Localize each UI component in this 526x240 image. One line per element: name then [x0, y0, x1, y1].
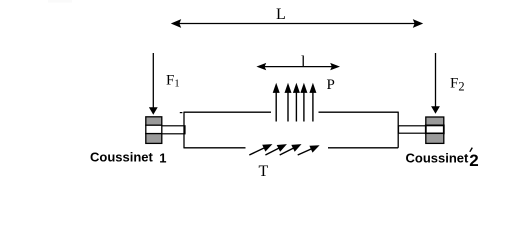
left bearing bottom gray block: [146, 134, 162, 144]
small dash left of top-left corner: [180, 112, 183, 114]
faint toolbar remnant top: [48, 0, 72, 3]
dimension L left arrowhead: [171, 19, 181, 28]
load arrow P3: [295, 90, 297, 122]
shaft body top edge right segment: [319, 111, 399, 113]
torque arrow T2: [265, 146, 283, 155]
svg-text:T: T: [259, 163, 269, 180]
dimension L right arrowhead: [413, 19, 423, 28]
force arrow F2 line: [435, 53, 437, 107]
dimension l line: [261, 66, 335, 68]
dimension L line: [176, 23, 418, 25]
left shaft stub: [162, 126, 186, 134]
right bearing bottom gray block: [426, 133, 444, 143]
right bearing middle white band: [426, 125, 444, 133]
force arrow F1 head: [149, 107, 158, 115]
apostrophe mark above 2: [470, 148, 473, 152]
load arrow P4: [303, 90, 305, 122]
left bearing top gray block: [146, 117, 162, 125]
svg-text:L: L: [276, 6, 286, 23]
svg-text:2: 2: [469, 151, 478, 170]
svg-text:l: l: [301, 54, 306, 71]
force arrow F1 line: [152, 53, 154, 108]
torque arrow T3: [280, 146, 298, 155]
left bearing middle white band: [146, 125, 162, 133]
svg-text:1: 1: [159, 150, 166, 165]
shaft body left edge: [183, 112, 185, 149]
load arrow P5: [312, 90, 314, 122]
right shaft stub: [399, 126, 427, 133]
load arrow P1: [275, 90, 277, 122]
right bearing top gray block: [426, 117, 444, 125]
torque arrow T1: [249, 146, 268, 155]
dimension l left arrowhead: [256, 63, 266, 70]
shaft body bottom edge right segment: [328, 147, 398, 149]
svg-text:Coussinet: Coussinet: [90, 150, 154, 165]
shaft body right edge: [397, 112, 399, 148]
shaft body bottom edge left segment: [184, 147, 246, 149]
force arrow F2 head: [431, 106, 440, 114]
svg-text:Coussinet: Coussinet: [406, 151, 470, 166]
torque arrow T4: [298, 147, 316, 155]
dimension l right arrowhead: [330, 63, 340, 70]
svg-text:P: P: [327, 77, 335, 93]
shaft body top edge left segment: [184, 111, 271, 113]
load arrow P2: [287, 90, 289, 122]
